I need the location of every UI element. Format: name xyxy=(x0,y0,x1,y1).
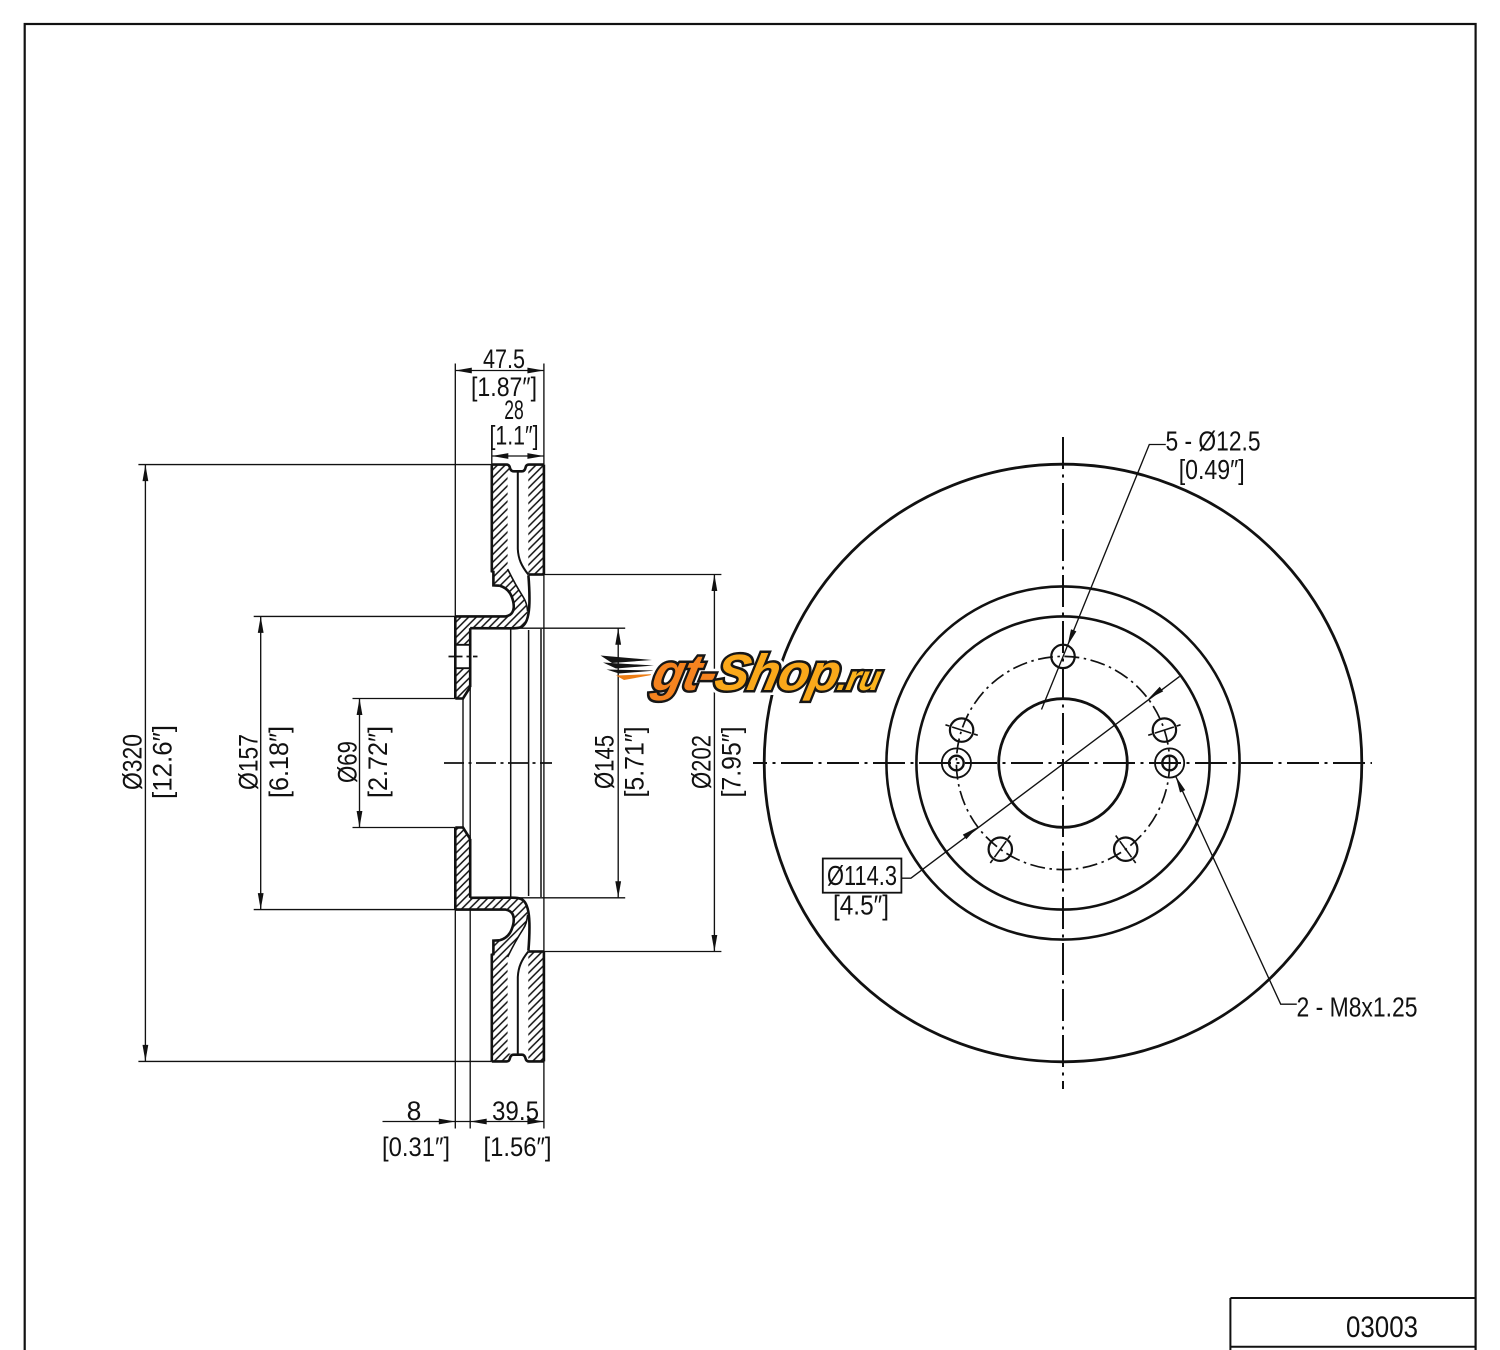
hat face circle xyxy=(916,616,1209,909)
5 bolt holes D12.5 xyxy=(1051,645,1074,668)
centre bore D69 xyxy=(999,699,1128,828)
bolt hole cut in flange (white gap) xyxy=(456,645,469,668)
svg-text:Ø202: Ø202 xyxy=(687,735,717,789)
leader: 5 - D12.5 xyxy=(1042,445,1166,710)
front view: centerlines xyxy=(1062,437,1064,1089)
svg-text:5 - Ø12.5: 5 - Ø12.5 xyxy=(1166,426,1261,457)
section centerlines (dash-dot) xyxy=(444,762,552,764)
svg-text:[7.95″]: [7.95″] xyxy=(717,727,747,798)
svg-text:Ø320: Ø320 xyxy=(118,734,148,790)
svg-text:[4.5″]: [4.5″] xyxy=(833,890,889,921)
title block xyxy=(1230,1298,1475,1350)
svg-text:[6.18″]: [6.18″] xyxy=(264,726,294,798)
extension lines xyxy=(138,464,491,466)
section view: hatched areas xyxy=(455,465,527,699)
vent channel wall lines xyxy=(518,472,529,575)
middle circle xyxy=(886,586,1239,939)
svg-text:Ø145: Ø145 xyxy=(590,735,620,789)
hidden/projected edges through bore and hat opening xyxy=(462,699,464,828)
2 M8 tapped holes xyxy=(942,748,971,777)
svg-text:[1.1″]: [1.1″] xyxy=(490,421,539,451)
D114.3 dimension (boxed) with diagonal diameter line xyxy=(901,676,1179,878)
svg-text:Ø69: Ø69 xyxy=(333,741,363,783)
svg-text:[0.49″]: [0.49″] xyxy=(1179,454,1245,485)
leader: 2 - M8x1.25 xyxy=(1176,776,1297,1004)
svg-text:2 - M8x1.25: 2 - M8x1.25 xyxy=(1297,992,1418,1023)
svg-text:8: 8 xyxy=(407,1096,422,1126)
svg-text:03003: 03003 xyxy=(1346,1311,1418,1344)
dimension lines with arrows xyxy=(144,465,146,1062)
svg-text:[12.6″]: [12.6″] xyxy=(148,725,178,799)
section outline (thick) xyxy=(492,465,544,472)
svg-text:[1.56″]: [1.56″] xyxy=(484,1132,552,1162)
svg-text:[0.31″]: [0.31″] xyxy=(382,1132,450,1162)
svg-text:Ø114.3: Ø114.3 xyxy=(827,860,897,891)
svg-text:Ø157: Ø157 xyxy=(234,734,264,790)
outer circle D320 xyxy=(764,464,1362,1062)
svg-text:[5.71″]: [5.71″] xyxy=(620,727,650,798)
bolt hole edges in flange bar xyxy=(455,645,470,668)
gt-shop.ru watermark logo xyxy=(601,644,889,701)
svg-text:[2.72″]: [2.72″] xyxy=(363,726,393,798)
svg-text:47.5: 47.5 xyxy=(483,344,525,374)
bolt circle D114.3 (dash-dot) xyxy=(956,656,1169,869)
svg-text:39.5: 39.5 xyxy=(492,1096,539,1126)
